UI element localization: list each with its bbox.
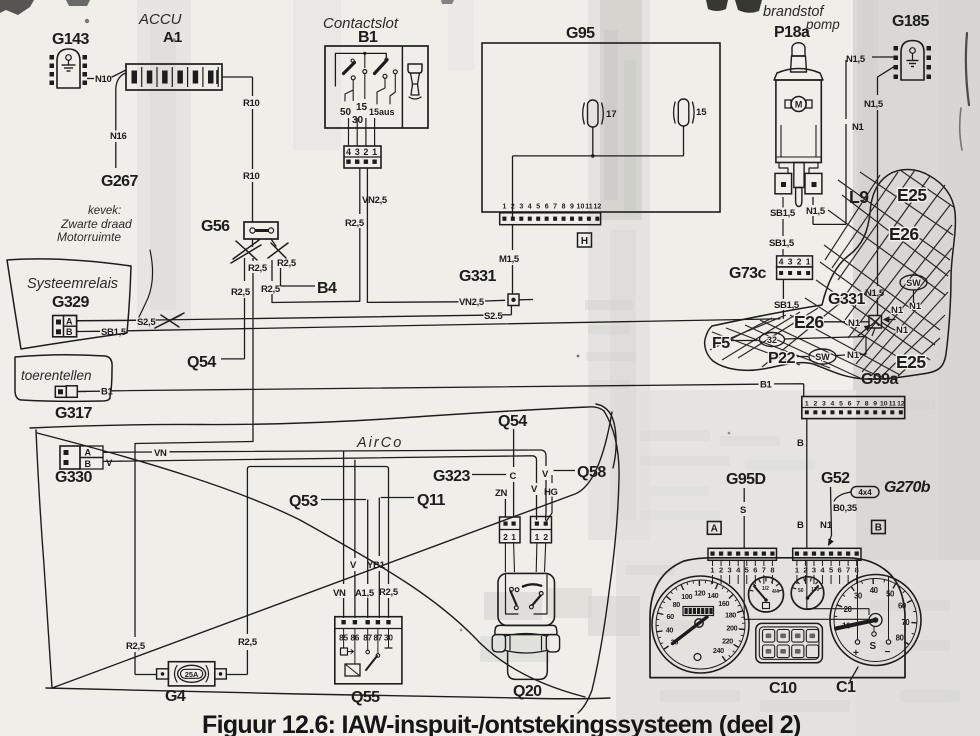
svg-text:V: V bbox=[106, 458, 113, 469]
svg-text:Q20: Q20 bbox=[513, 683, 542, 700]
svg-text:S2.5: S2.5 bbox=[484, 311, 503, 322]
svg-text:7: 7 bbox=[846, 566, 850, 575]
svg-text:Motorruimte: Motorruimte bbox=[57, 230, 121, 244]
svg-text:17: 17 bbox=[606, 109, 617, 120]
svg-text:E25: E25 bbox=[896, 352, 926, 372]
svg-text:G330: G330 bbox=[55, 469, 92, 486]
svg-text:12: 12 bbox=[897, 400, 905, 407]
svg-text:N1: N1 bbox=[852, 122, 865, 133]
svg-text:Q54: Q54 bbox=[187, 354, 216, 371]
svg-text:HG: HG bbox=[544, 487, 558, 498]
svg-text:Q54: Q54 bbox=[498, 413, 527, 430]
svg-text:C1: C1 bbox=[836, 679, 856, 696]
svg-text:B: B bbox=[66, 327, 73, 337]
svg-text:G329: G329 bbox=[52, 294, 89, 311]
svg-text:5: 5 bbox=[536, 204, 540, 211]
svg-text:6: 6 bbox=[753, 566, 757, 575]
svg-text:30: 30 bbox=[854, 592, 863, 601]
svg-text:R10: R10 bbox=[243, 171, 260, 182]
svg-text:4x4: 4x4 bbox=[858, 488, 872, 497]
svg-text:C: C bbox=[510, 471, 517, 482]
svg-text:25A: 25A bbox=[185, 670, 199, 679]
svg-text:15: 15 bbox=[696, 107, 707, 118]
svg-text:N1: N1 bbox=[848, 318, 861, 329]
svg-text:1: 1 bbox=[806, 257, 811, 267]
svg-text:7: 7 bbox=[553, 204, 557, 211]
svg-text:G99a: G99a bbox=[861, 371, 898, 388]
svg-text:130: 130 bbox=[811, 587, 820, 593]
svg-text:V: V bbox=[350, 560, 357, 571]
svg-text:B1: B1 bbox=[358, 29, 378, 46]
svg-text:ACCU: ACCU bbox=[138, 11, 182, 28]
svg-text:80: 80 bbox=[673, 600, 681, 609]
svg-text:G95D: G95D bbox=[726, 471, 765, 488]
svg-text:60: 60 bbox=[898, 602, 907, 611]
svg-text:S2,5: S2,5 bbox=[137, 317, 156, 328]
svg-text:3: 3 bbox=[822, 400, 826, 407]
svg-text:N10: N10 bbox=[95, 74, 112, 85]
svg-text:1: 1 bbox=[535, 532, 540, 542]
svg-text:G52: G52 bbox=[821, 470, 850, 487]
svg-text:20: 20 bbox=[844, 605, 853, 614]
svg-text:V: V bbox=[542, 469, 549, 480]
svg-text:Zwarte draad: Zwarte draad bbox=[60, 217, 132, 231]
svg-text:Q55: Q55 bbox=[351, 689, 380, 706]
svg-text:9: 9 bbox=[570, 204, 574, 211]
svg-text:5: 5 bbox=[745, 566, 749, 575]
svg-text:P22: P22 bbox=[768, 350, 796, 367]
svg-text:N1,5: N1,5 bbox=[864, 99, 884, 110]
svg-text:R2,5: R2,5 bbox=[238, 637, 258, 648]
svg-text:10: 10 bbox=[577, 204, 585, 211]
svg-text:V: V bbox=[531, 484, 538, 495]
svg-text:F5: F5 bbox=[712, 335, 730, 352]
svg-text:3: 3 bbox=[728, 566, 732, 575]
svg-text:80: 80 bbox=[896, 634, 905, 643]
svg-text:G317: G317 bbox=[55, 405, 92, 422]
svg-text:R10: R10 bbox=[243, 98, 260, 109]
svg-text:B1: B1 bbox=[101, 387, 114, 398]
svg-text:VN2,5: VN2,5 bbox=[362, 195, 388, 206]
svg-text:E26: E26 bbox=[794, 312, 824, 332]
svg-text:6: 6 bbox=[545, 204, 549, 211]
svg-text:G56: G56 bbox=[201, 218, 230, 235]
svg-text:C10: C10 bbox=[769, 680, 797, 697]
svg-text:G270b: G270b bbox=[884, 479, 931, 496]
svg-text:N1: N1 bbox=[847, 350, 860, 361]
svg-text:R2,5: R2,5 bbox=[248, 263, 268, 274]
svg-text:6: 6 bbox=[848, 400, 852, 407]
svg-text:Systeemrelais: Systeemrelais bbox=[27, 276, 118, 292]
svg-text:10: 10 bbox=[880, 400, 888, 407]
svg-text:G143: G143 bbox=[52, 31, 89, 48]
svg-text:5: 5 bbox=[829, 566, 833, 575]
svg-text:B4: B4 bbox=[317, 280, 337, 297]
svg-text:70: 70 bbox=[901, 618, 910, 627]
svg-text:VN2,5: VN2,5 bbox=[459, 297, 485, 308]
svg-text:60: 60 bbox=[666, 612, 674, 621]
svg-text:Q58: Q58 bbox=[577, 464, 606, 481]
svg-text:A1,5: A1,5 bbox=[355, 588, 375, 599]
svg-text:N16: N16 bbox=[110, 131, 127, 142]
svg-text:G95: G95 bbox=[566, 25, 595, 42]
svg-text:AirCo: AirCo bbox=[356, 435, 403, 451]
svg-text:11: 11 bbox=[889, 400, 896, 407]
svg-text:2: 2 bbox=[719, 566, 723, 575]
svg-text:N1,5: N1,5 bbox=[846, 54, 866, 65]
svg-text:12: 12 bbox=[593, 204, 601, 211]
svg-text:8: 8 bbox=[562, 204, 566, 211]
svg-text:−: − bbox=[885, 647, 891, 658]
svg-text:N1: N1 bbox=[896, 325, 909, 336]
svg-text:4: 4 bbox=[779, 257, 784, 267]
svg-text:40: 40 bbox=[870, 586, 879, 595]
svg-text:E25: E25 bbox=[897, 185, 927, 205]
svg-text:G331: G331 bbox=[459, 268, 496, 285]
svg-text:B: B bbox=[85, 459, 92, 469]
svg-text:R2,5: R2,5 bbox=[379, 587, 399, 598]
svg-text:200: 200 bbox=[726, 624, 737, 633]
svg-text:9: 9 bbox=[873, 400, 877, 407]
svg-text:G4: G4 bbox=[165, 688, 186, 705]
svg-text:5: 5 bbox=[839, 400, 843, 407]
svg-text:11: 11 bbox=[585, 204, 593, 211]
svg-text:B: B bbox=[875, 523, 882, 534]
svg-text:4/4: 4/4 bbox=[772, 589, 779, 595]
svg-text:8: 8 bbox=[865, 400, 869, 407]
svg-text:7: 7 bbox=[856, 400, 860, 407]
svg-text:2: 2 bbox=[503, 532, 508, 542]
svg-text:220: 220 bbox=[722, 636, 733, 645]
svg-text:ZN: ZN bbox=[495, 488, 508, 499]
svg-text:G267: G267 bbox=[101, 173, 138, 190]
svg-text:SW: SW bbox=[815, 352, 830, 362]
svg-text:2: 2 bbox=[511, 204, 515, 211]
svg-text:Q53: Q53 bbox=[289, 493, 318, 510]
svg-text:R2,5: R2,5 bbox=[345, 218, 365, 229]
svg-text:40: 40 bbox=[666, 625, 674, 634]
svg-text:A: A bbox=[711, 524, 718, 535]
svg-text:+: + bbox=[853, 648, 859, 659]
svg-text:pomp: pomp bbox=[805, 17, 840, 32]
svg-text:N1: N1 bbox=[909, 301, 922, 312]
svg-text:A: A bbox=[85, 448, 92, 458]
svg-text:4: 4 bbox=[831, 400, 835, 407]
svg-text:50: 50 bbox=[798, 588, 804, 594]
svg-text:YB1: YB1 bbox=[367, 560, 386, 571]
svg-text:N1: N1 bbox=[891, 305, 904, 316]
svg-text:32: 32 bbox=[767, 335, 777, 345]
svg-text:2: 2 bbox=[813, 400, 817, 407]
svg-text:1: 1 bbox=[795, 566, 799, 575]
svg-text:G185: G185 bbox=[892, 13, 929, 30]
svg-text:B1: B1 bbox=[760, 380, 773, 391]
svg-text:toerentellen: toerentellen bbox=[21, 368, 92, 383]
svg-text:240: 240 bbox=[713, 646, 724, 655]
svg-text:2: 2 bbox=[363, 147, 368, 157]
svg-text:VN: VN bbox=[333, 588, 346, 599]
svg-text:B: B bbox=[797, 438, 804, 449]
svg-text:G323: G323 bbox=[433, 468, 470, 485]
svg-text:6: 6 bbox=[838, 566, 842, 575]
svg-text:4: 4 bbox=[346, 147, 351, 157]
svg-text:R2,5: R2,5 bbox=[277, 258, 297, 269]
svg-text:2: 2 bbox=[543, 532, 548, 542]
svg-text:P18a: P18a bbox=[774, 24, 810, 41]
svg-text:1: 1 bbox=[372, 147, 377, 157]
svg-text:SW: SW bbox=[906, 278, 921, 288]
svg-text:120: 120 bbox=[694, 589, 705, 598]
svg-text:N1: N1 bbox=[820, 520, 833, 531]
svg-text:G331: G331 bbox=[828, 291, 865, 308]
svg-text:180: 180 bbox=[725, 610, 736, 619]
svg-text:160: 160 bbox=[718, 599, 729, 608]
svg-text:2: 2 bbox=[797, 257, 802, 267]
svg-text:3: 3 bbox=[355, 147, 360, 157]
svg-text:A: A bbox=[66, 316, 73, 326]
svg-text:A1: A1 bbox=[163, 29, 182, 46]
svg-text:R2,5: R2,5 bbox=[261, 284, 281, 295]
svg-text:8: 8 bbox=[770, 566, 774, 575]
svg-text:1/2: 1/2 bbox=[762, 586, 769, 592]
svg-text:E26: E26 bbox=[889, 224, 919, 244]
svg-text:SB1,5: SB1,5 bbox=[101, 327, 127, 338]
svg-text:Figuur 12.6: IAW-inspuit-/onts: Figuur 12.6: IAW-inspuit-/ontstekingssys… bbox=[202, 711, 801, 736]
svg-text:R2,5: R2,5 bbox=[231, 287, 251, 298]
svg-text:SB1,5: SB1,5 bbox=[769, 238, 795, 249]
svg-text:7: 7 bbox=[762, 566, 766, 575]
svg-text:R2,5: R2,5 bbox=[126, 641, 146, 652]
svg-text:M: M bbox=[795, 100, 803, 110]
svg-text:S: S bbox=[870, 641, 877, 652]
svg-text:15: 15 bbox=[356, 102, 368, 113]
svg-text:50: 50 bbox=[340, 107, 352, 118]
svg-text:3: 3 bbox=[812, 566, 816, 575]
svg-text:S: S bbox=[740, 505, 746, 516]
svg-text:M1,5: M1,5 bbox=[499, 254, 520, 265]
svg-text:140: 140 bbox=[707, 591, 718, 600]
svg-text:3: 3 bbox=[519, 204, 523, 211]
svg-text:1: 1 bbox=[805, 400, 809, 407]
svg-text:G73c: G73c bbox=[729, 265, 766, 282]
svg-text:B: B bbox=[797, 520, 804, 531]
svg-text:Q11: Q11 bbox=[417, 492, 445, 509]
svg-text:1: 1 bbox=[511, 532, 516, 542]
svg-text:8: 8 bbox=[855, 566, 859, 575]
svg-text:4: 4 bbox=[528, 204, 532, 211]
svg-text:1: 1 bbox=[502, 204, 506, 211]
svg-text:H: H bbox=[581, 236, 588, 247]
svg-text:15aus: 15aus bbox=[369, 107, 395, 117]
svg-text:B0,35: B0,35 bbox=[833, 503, 858, 514]
svg-text:50: 50 bbox=[886, 590, 895, 599]
svg-text:N1,5: N1,5 bbox=[806, 206, 826, 217]
svg-text:kevek:: kevek: bbox=[88, 205, 121, 217]
svg-text:3: 3 bbox=[788, 257, 793, 267]
svg-text:VN: VN bbox=[154, 448, 167, 459]
svg-text:SB1,5: SB1,5 bbox=[770, 208, 796, 219]
svg-text:100: 100 bbox=[681, 592, 692, 601]
svg-text:1: 1 bbox=[710, 566, 714, 575]
